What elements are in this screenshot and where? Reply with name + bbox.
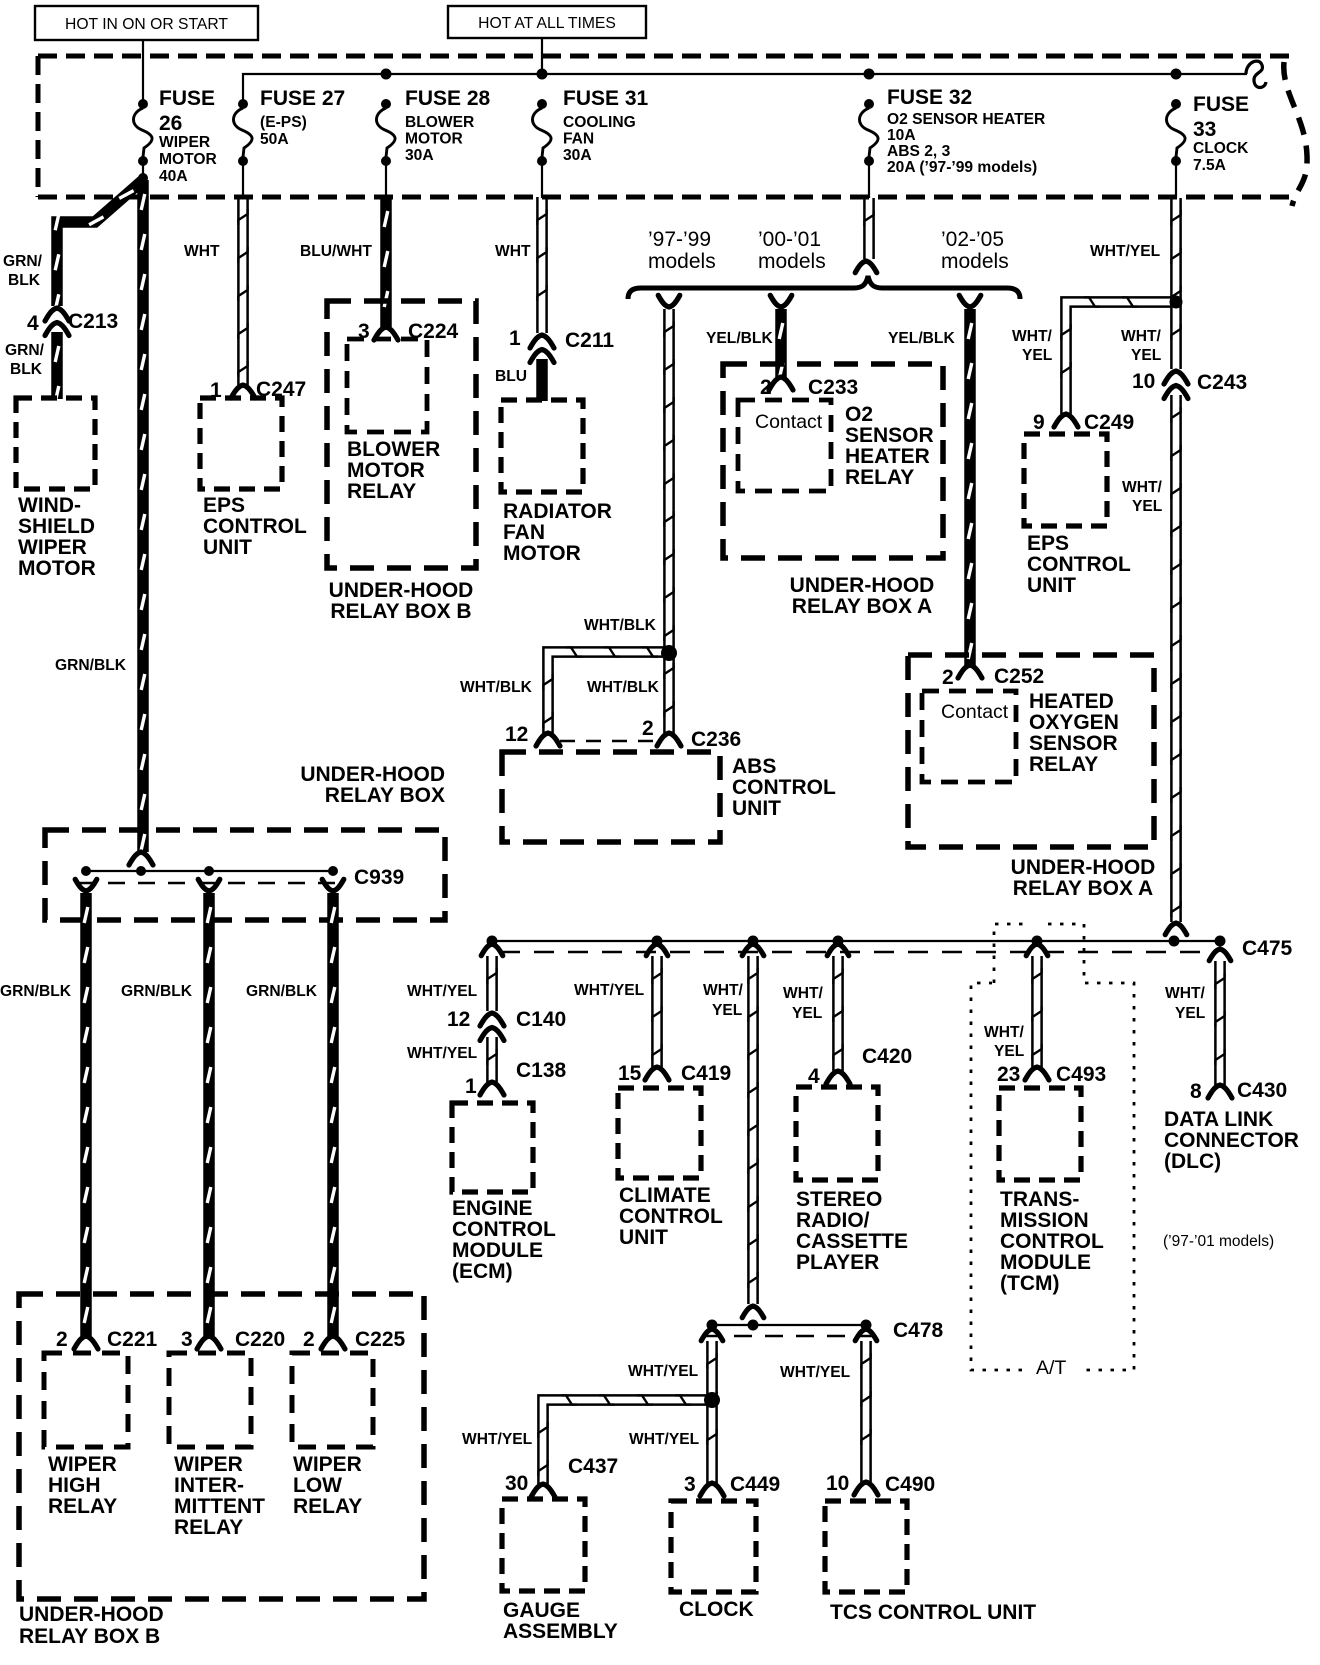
connector fork pin 12 ABS	[536, 733, 560, 746]
svg-text:BLU: BLU	[495, 368, 527, 385]
under-hood relay box B bottom label	[19, 1603, 164, 1648]
wire WHT from fuse 27 to EPS control unit	[238, 197, 247, 385]
svg-text:UNIT: UNIT	[203, 536, 252, 559]
svg-text:LOW: LOW	[293, 1474, 342, 1497]
wire WHT/YEL C478 to TCS	[861, 1341, 870, 1482]
bus fork C478 x712	[701, 1329, 723, 1341]
svg-text:WIPER: WIPER	[48, 1453, 117, 1476]
wire GRN/BLK to wiper low relay	[331, 893, 335, 1336]
svg-text:A/T: A/T	[1036, 1357, 1066, 1379]
svg-text:C252: C252	[994, 665, 1044, 688]
radiator fan motor label	[503, 500, 612, 565]
gauge assembly box	[502, 1499, 585, 1591]
svg-text:WHT/BLK: WHT/BLK	[584, 617, 657, 634]
label WHT/YEL (C430)	[1165, 985, 1206, 1022]
svg-text:UNIT: UNIT	[1027, 574, 1076, 597]
svg-text:C236: C236	[691, 728, 741, 751]
wire WHT/YEL long to C478	[748, 956, 757, 1304]
TCS control unit label	[830, 1601, 1036, 1624]
label 15 C419	[618, 1062, 731, 1085]
svg-text:WIPER: WIPER	[159, 134, 210, 151]
svg-text:C490: C490	[885, 1473, 935, 1496]
wire WHT from fuse 31	[537, 197, 546, 333]
svg-text:WIPER: WIPER	[293, 1453, 362, 1476]
label 1 C138	[465, 1059, 567, 1098]
label 8 C430	[1190, 1079, 1287, 1103]
label 2 C221	[56, 1328, 158, 1351]
svg-text:YEL: YEL	[994, 1043, 1025, 1060]
label BLU	[495, 368, 527, 385]
svg-text:HOT IN ON OR START: HOT IN ON OR START	[65, 16, 228, 33]
svg-text:WHT/: WHT/	[703, 982, 744, 999]
label WHT/YEL below clock junction	[629, 1431, 700, 1448]
fuse F32 value label	[887, 86, 1045, 176]
C939 fork middle	[198, 879, 220, 891]
svg-text:INTER-: INTER-	[174, 1474, 244, 1497]
svg-text:C419: C419	[681, 1062, 731, 1085]
svg-text:COOLING: COOLING	[563, 114, 636, 131]
svg-text:1: 1	[509, 327, 521, 350]
svg-text:C430: C430	[1237, 1079, 1287, 1102]
svg-text:FUSE: FUSE	[159, 87, 215, 110]
svg-text:C437: C437	[568, 1455, 618, 1478]
windshield wiper motor label	[18, 494, 96, 580]
svg-text:DATA LINK: DATA LINK	[1164, 1108, 1273, 1131]
under-hood relay box outline	[45, 830, 445, 920]
svg-text:SHIELD: SHIELD	[18, 515, 95, 538]
ABS control unit label	[732, 755, 836, 820]
svg-text:C213: C213	[68, 310, 118, 333]
svg-text:1: 1	[465, 1075, 477, 1098]
svg-text:STEREO: STEREO	[796, 1188, 882, 1211]
connector C224 fork	[374, 327, 398, 340]
svg-text:CLOCK: CLOCK	[679, 1598, 754, 1621]
windshield wiper motor box	[16, 398, 95, 489]
svg-text:26: 26	[159, 112, 182, 135]
svg-text:WIPER: WIPER	[174, 1453, 243, 1476]
bus C475 dashed line	[500, 951, 1206, 953]
svg-text:FUSE 32: FUSE 32	[887, 86, 972, 109]
svg-text:3: 3	[684, 1473, 696, 1496]
fuse box (under-dash fuse/relay panel) dashed outline	[38, 56, 1296, 197]
svg-text:FUSE 31: FUSE 31	[563, 87, 649, 110]
bus fork C475 x753	[742, 944, 764, 956]
label 2 C233	[760, 376, 858, 399]
svg-text:YEL/BLK: YEL/BLK	[706, 330, 773, 347]
wire GRN/BLK to windshield wiper motor	[55, 332, 59, 402]
connector C493 fork	[1025, 1067, 1049, 1080]
label C475	[1242, 937, 1293, 960]
svg-text:RELAY BOX: RELAY BOX	[325, 784, 445, 807]
connector fork C225	[321, 1336, 345, 1349]
svg-text:YEL: YEL	[1022, 347, 1053, 364]
connector C490 fork	[854, 1482, 878, 1495]
svg-text:FAN: FAN	[503, 521, 545, 544]
wire GRN/BLK to wiper high relay	[84, 893, 88, 1336]
svg-text:TCS CONTROL UNIT: TCS CONTROL UNIT	[830, 1601, 1036, 1624]
svg-text:33: 33	[1193, 118, 1216, 141]
label WHT/YEL (C420)	[783, 985, 824, 1022]
wire WHT/YEL from fuse 33	[1171, 198, 1180, 369]
C939 connector dashed line	[78, 882, 341, 885]
svg-text:ENGINE: ENGINE	[452, 1197, 533, 1220]
wire GRN/BLK to wiper intermittent relay	[207, 893, 211, 1336]
svg-text:CONTROL: CONTROL	[1027, 553, 1131, 576]
svg-text:WHT/BLK: WHT/BLK	[460, 679, 533, 696]
label 3 C224	[358, 320, 459, 343]
label WHT/YEL (C493)	[984, 1024, 1025, 1060]
svg-text:GRN/: GRN/	[3, 253, 43, 270]
svg-text:WHT/YEL: WHT/YEL	[780, 1364, 851, 1381]
svg-text:HIGH: HIGH	[48, 1474, 101, 1497]
svg-text:HOT AT ALL TIMES: HOT AT ALL TIMES	[478, 15, 616, 32]
label 23 C493	[997, 1063, 1106, 1086]
svg-text:WIND-: WIND-	[18, 494, 81, 517]
label GRN/BLK lower	[5, 342, 45, 378]
label WHT/BLK middle	[587, 679, 660, 696]
svg-text:BLU/WHT: BLU/WHT	[300, 243, 372, 260]
svg-text:GRN/BLK: GRN/BLK	[121, 983, 193, 1000]
label 12 C140	[447, 1008, 566, 1031]
engine control module box	[452, 1103, 533, 1192]
svg-text:2: 2	[303, 1328, 315, 1351]
svg-text:C221: C221	[107, 1328, 158, 1351]
transmission control module box	[999, 1088, 1081, 1180]
label 3 C449	[684, 1473, 780, 1496]
label WHT/YEL (C138)	[407, 1045, 478, 1062]
O2 sensor heater relay outer box	[723, 364, 943, 558]
gauge assembly label	[503, 1599, 618, 1643]
wire BLU/WHT from fuse 28 to blower motor relay	[384, 197, 388, 327]
wire from HOT AT ALL TIMES to bus	[541, 38, 543, 74]
label WHT/YEL (left of C249)	[1012, 328, 1053, 364]
wire '00-'01 YEL/BLK	[770, 295, 792, 379]
svg-text:GAUGE: GAUGE	[503, 1599, 580, 1622]
svg-text:YEL: YEL	[1131, 347, 1162, 364]
svg-text:MODULE: MODULE	[1000, 1251, 1091, 1274]
fuse F31 value label	[563, 87, 649, 164]
svg-text:WHT/YEL: WHT/YEL	[628, 1363, 699, 1380]
svg-text:WIPER: WIPER	[18, 536, 87, 559]
engine control module label	[452, 1197, 556, 1283]
svg-text:2: 2	[642, 717, 654, 740]
svg-text:CONTROL: CONTROL	[619, 1205, 723, 1228]
svg-text:C140: C140	[516, 1008, 566, 1031]
connector fork C221	[74, 1336, 98, 1349]
fuse F27 value label	[260, 87, 345, 148]
svg-text:10A: 10A	[887, 127, 916, 144]
TCS control unit box	[825, 1501, 907, 1592]
label 9 C249	[1033, 411, 1134, 434]
svg-text:CLIMATE: CLIMATE	[619, 1184, 711, 1207]
label 4 C213	[27, 310, 118, 335]
svg-text:WHT: WHT	[495, 243, 531, 260]
svg-text:30A: 30A	[405, 147, 434, 164]
connector C249 fork	[1054, 414, 1078, 427]
bus C478 dashed line	[703, 1335, 877, 1337]
svg-text:(E-PS): (E-PS)	[260, 114, 307, 131]
connector C449 fork	[700, 1483, 724, 1496]
svg-text:WHT/: WHT/	[984, 1024, 1025, 1041]
connector C243 inline	[1164, 371, 1188, 399]
svg-text:MOTOR: MOTOR	[405, 131, 463, 148]
EPS control unit label (right)	[1027, 532, 1131, 597]
label YEL/BLK right	[888, 330, 955, 347]
bus C475 line	[487, 936, 1226, 947]
connector C247 fork	[231, 385, 255, 398]
svg-text:GRN/BLK: GRN/BLK	[0, 983, 72, 1000]
svg-text:EPS: EPS	[1027, 532, 1069, 555]
connector C233 fork	[769, 377, 793, 390]
svg-text:CONTROL: CONTROL	[1000, 1230, 1104, 1253]
connector C420 fork	[826, 1071, 850, 1084]
svg-text:UNIT: UNIT	[619, 1226, 668, 1249]
label 1 C211	[509, 327, 614, 352]
svg-text:RELAY: RELAY	[845, 466, 914, 489]
svg-text:UNDER-HOOD: UNDER-HOOD	[329, 579, 474, 602]
svg-text:BLOWER: BLOWER	[347, 438, 440, 461]
svg-text:C243: C243	[1197, 371, 1247, 394]
svg-text:CONTROL: CONTROL	[203, 515, 307, 538]
wiper low relay box	[292, 1353, 373, 1447]
svg-text:FUSE: FUSE	[1193, 93, 1249, 116]
label WHT/YEL (right)	[1121, 328, 1162, 364]
svg-text:40A: 40A	[159, 168, 188, 185]
label GRN/BLK upper	[3, 253, 43, 289]
svg-text:MOTOR: MOTOR	[347, 459, 425, 482]
label GRN/BLK 1	[0, 983, 72, 1000]
svg-text:C475: C475	[1242, 937, 1293, 960]
fuse tail lines to panel edge	[243, 161, 1176, 198]
svg-text:SENSOR: SENSOR	[845, 424, 934, 447]
label 3 C220	[181, 1328, 285, 1351]
connector C419 fork	[645, 1067, 669, 1080]
data link connector label	[1164, 1108, 1299, 1173]
wire from fuse 32 down to brace	[855, 198, 877, 273]
svg-text:12: 12	[505, 723, 528, 746]
curl at right end of bus	[1246, 61, 1266, 87]
label A/T	[1036, 1357, 1066, 1379]
connector C211 inline	[530, 335, 554, 363]
svg-text:FAN: FAN	[563, 131, 594, 148]
svg-text:ASSEMBLY: ASSEMBLY	[503, 1620, 618, 1643]
label C478	[893, 1319, 944, 1342]
svg-text:’00-’01: ’00-’01	[758, 228, 821, 251]
svg-text:SENSOR: SENSOR	[1029, 732, 1118, 755]
svg-text:WHT/BLK: WHT/BLK	[587, 679, 660, 696]
wiper high relay box	[44, 1353, 128, 1447]
connector C140 inline	[480, 1013, 504, 1041]
svg-text:RADIO/: RADIO/	[796, 1209, 870, 1232]
power bus inside fuse box	[243, 69, 1247, 105]
wiper high relay label	[48, 1453, 117, 1518]
svg-text:RADIATOR: RADIATOR	[503, 500, 612, 523]
svg-text:O2: O2	[845, 403, 873, 426]
svg-text:(ECM): (ECM)	[452, 1260, 513, 1283]
under-hood relay box A label (upper)	[790, 574, 935, 618]
svg-text:50A: 50A	[260, 131, 289, 148]
wire WHT/YEL L-branch to EPS C249	[1061, 297, 1171, 414]
svg-text:WHT/: WHT/	[1121, 328, 1162, 345]
label WHT/BLK left	[460, 679, 533, 696]
svg-text:9: 9	[1033, 411, 1045, 434]
svg-text:8: 8	[1190, 1080, 1202, 1103]
label '97-'99 models	[648, 228, 716, 273]
label ('97-'01 models)	[1163, 1233, 1274, 1250]
svg-text:2: 2	[942, 666, 954, 689]
wire GRN/BLK diagonal branch to windshield wiper motor	[55, 180, 143, 310]
fuse F33	[1166, 99, 1185, 166]
wire fuse26 below fuse	[138, 161, 148, 183]
svg-text:3: 3	[181, 1328, 193, 1351]
svg-text:YEL/BLK: YEL/BLK	[888, 330, 955, 347]
under-hood relay box B (top) outline	[327, 301, 476, 568]
svg-text:BLOWER: BLOWER	[405, 114, 474, 131]
EPS control unit label (left)	[203, 494, 307, 559]
connector C213 inline	[45, 308, 69, 336]
svg-text:(’97-’01 models): (’97-’01 models)	[1163, 1233, 1274, 1250]
bus fork C475 x657	[646, 944, 668, 956]
svg-text:12: 12	[447, 1008, 470, 1031]
svg-text:23: 23	[997, 1063, 1020, 1086]
label box HOT AT ALL TIMES	[448, 6, 646, 38]
connector C430 fork	[1208, 1085, 1232, 1098]
svg-text:MOTOR: MOTOR	[503, 542, 581, 565]
wire WHT/YEL L-branch to gauge assembly	[538, 1395, 707, 1484]
wiper low relay label	[293, 1453, 362, 1518]
svg-text:WHT: WHT	[184, 243, 220, 260]
bus fork C475 x1037	[1026, 944, 1048, 956]
svg-text:(TCM): (TCM)	[1000, 1272, 1059, 1295]
label Contact (HO2S relay)	[941, 701, 1009, 723]
bus fork C475 x838	[827, 944, 849, 956]
EPS control unit box (left)	[200, 398, 282, 489]
label WHT/YEL (gauge)	[462, 1431, 533, 1448]
label GRN/BLK 2	[121, 983, 193, 1000]
svg-text:’97-’99: ’97-’99	[648, 228, 711, 251]
label WHT/YEL (C140)	[407, 983, 478, 1000]
label '02-'05 models	[941, 228, 1009, 273]
svg-text:RELAY: RELAY	[347, 480, 416, 503]
svg-text:models: models	[648, 250, 716, 273]
svg-text:C939: C939	[354, 866, 404, 889]
fuse F28	[376, 99, 395, 166]
svg-text:2: 2	[56, 1328, 68, 1351]
svg-text:ABS 2, 3: ABS 2, 3	[887, 143, 951, 160]
svg-text:WHT/YEL: WHT/YEL	[407, 1045, 478, 1062]
bus fork C478 x866	[855, 1329, 877, 1341]
svg-text:O2 SENSOR HEATER: O2 SENSOR HEATER	[887, 111, 1045, 128]
label GRN/BLK 3	[246, 983, 318, 1000]
label '00-'01 models	[758, 228, 826, 273]
svg-text:YEL: YEL	[1132, 498, 1163, 515]
svg-text:20A (’97-’99 models): 20A (’97-’99 models)	[887, 159, 1037, 176]
svg-text:RELAY: RELAY	[48, 1495, 117, 1518]
blower motor relay label	[347, 438, 440, 503]
wire from HOT IN ON OR START to fuse 26	[142, 40, 144, 104]
svg-text:UNDER-HOOD: UNDER-HOOD	[1011, 856, 1156, 879]
svg-text:2: 2	[760, 376, 772, 399]
svg-text:(DLC): (DLC)	[1164, 1150, 1221, 1173]
stereo radio cassette player label	[796, 1188, 908, 1274]
connector fork pin 2 ABS	[657, 733, 681, 746]
svg-text:CONTROL: CONTROL	[732, 776, 836, 799]
label GRN/BLK main	[55, 657, 127, 674]
svg-text:WHT/YEL: WHT/YEL	[629, 1431, 700, 1448]
label 2 C252	[942, 665, 1044, 689]
svg-text:FUSE 28: FUSE 28	[405, 87, 491, 110]
wire BLU to radiator fan motor	[536, 359, 548, 401]
connector C437 fork	[531, 1484, 555, 1497]
svg-text:C211: C211	[565, 329, 614, 352]
fuse F32	[859, 99, 878, 166]
svg-text:GRN/: GRN/	[5, 342, 45, 359]
svg-text:30: 30	[505, 1472, 528, 1495]
label 12 / 2 / C236	[505, 717, 741, 751]
node C939 bus line	[81, 866, 338, 876]
svg-text:UNIT: UNIT	[732, 797, 781, 820]
ABS control unit box	[502, 752, 720, 842]
under-hood relay box A label (lower)	[1011, 856, 1156, 900]
torn edge of fuse box	[1284, 62, 1307, 206]
label WHT/YEL (x753)	[703, 982, 744, 1019]
svg-text:TRANS-: TRANS-	[1000, 1188, 1079, 1211]
svg-text:10: 10	[826, 1472, 849, 1495]
label WHT	[184, 243, 220, 260]
svg-text:MOTOR: MOTOR	[159, 151, 217, 168]
wire '97-'99 WHT/BLK from brace	[658, 295, 680, 733]
wiper intermittent relay box	[169, 1353, 251, 1447]
svg-text:FUSE 27: FUSE 27	[260, 87, 345, 110]
svg-text:UNDER-HOOD: UNDER-HOOD	[19, 1603, 164, 1626]
svg-text:C420: C420	[862, 1045, 912, 1068]
bus fork C475 x492	[481, 944, 503, 956]
svg-text:Contact: Contact	[755, 411, 823, 433]
svg-text:MOTOR: MOTOR	[18, 557, 96, 580]
wire WHT/YEL to C430	[1215, 961, 1224, 1085]
wire WHT/YEL C478 to clock	[704, 1341, 720, 1483]
svg-text:C225: C225	[355, 1328, 406, 1351]
heated oxygen sensor relay outer box	[908, 655, 1154, 847]
svg-text:UNDER-HOOD: UNDER-HOOD	[790, 574, 935, 597]
O2 sensor heater relay label	[845, 403, 934, 489]
svg-text:UNDER-HOOD: UNDER-HOOD	[300, 763, 445, 786]
label 2 C225	[303, 1328, 406, 1351]
label WHT/YEL (C419)	[574, 982, 645, 999]
label WHT right	[495, 243, 531, 260]
label 30 C437	[505, 1455, 618, 1495]
svg-text:MISSION: MISSION	[1000, 1209, 1089, 1232]
svg-text:models: models	[758, 250, 826, 273]
svg-text:C249: C249	[1084, 411, 1134, 434]
connector C138 fork	[480, 1082, 504, 1095]
svg-text:WHT/YEL: WHT/YEL	[407, 983, 478, 1000]
svg-text:RELAY BOX B: RELAY BOX B	[19, 1625, 160, 1648]
wire WHT/BLK L-branch to ABS pin 12	[543, 647, 664, 733]
svg-text:models: models	[941, 250, 1009, 273]
wire WHT/YEL to C419	[652, 956, 661, 1067]
label WHT/YEL above clock junction	[628, 1363, 699, 1380]
svg-text:7.5A: 7.5A	[1193, 157, 1226, 174]
svg-text:HEATED: HEATED	[1029, 690, 1114, 713]
transmission control module label	[1000, 1188, 1104, 1295]
brace grouping model years	[628, 276, 1020, 299]
svg-text:YEL: YEL	[712, 1002, 743, 1019]
svg-text:C478: C478	[893, 1319, 944, 1342]
svg-text:HEATER: HEATER	[845, 445, 930, 468]
svg-text:EPS: EPS	[203, 494, 245, 517]
radiator fan motor box	[501, 400, 583, 492]
